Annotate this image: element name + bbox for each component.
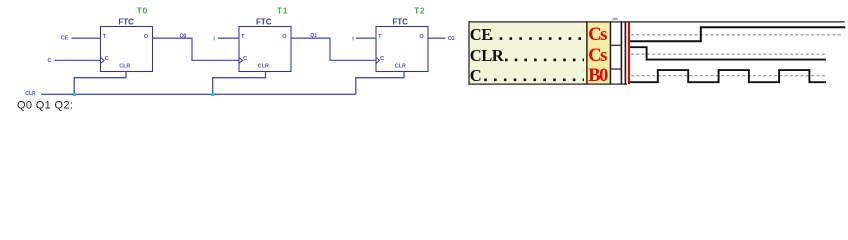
wire CLR branch to U1 — [74, 72, 126, 95]
red time cursor line — [628, 23, 630, 85]
wire I to U3.T — [356, 37, 376, 39]
wire CLR branch to U2 — [213, 72, 266, 95]
svg-text:Cs: Cs — [588, 25, 607, 45]
svg-text:CLR: CLR — [25, 91, 36, 97]
reference dashed line C — [631, 75, 825, 77]
T1 clock wedge — [239, 58, 243, 64]
flip-flop T2 (FTC toggle flip-flop) — [376, 6, 428, 72]
wire CLR bus — [41, 93, 356, 95]
T0 clock wedge — [101, 58, 105, 64]
timing panel value column background — [587, 22, 610, 84]
waveform C clock — [630, 70, 826, 82]
svg-text:T: T — [241, 34, 245, 40]
svg-text:C: C — [48, 58, 52, 64]
svg-text:Cs: Cs — [588, 46, 607, 66]
timing panel left border — [468, 21, 469, 84]
waveform CE — [630, 27, 845, 41]
svg-text:C: C — [380, 56, 384, 62]
wire I to U2.T — [218, 37, 239, 39]
svg-text:O2: O2 — [448, 36, 455, 42]
svg-text:CE: CE — [61, 36, 69, 42]
svg-text:T2: T2 — [414, 6, 425, 16]
T2 clock wedge — [376, 58, 380, 64]
svg-text:C: C — [105, 56, 109, 62]
flip-flop T0 (FTC toggle flip-flop) — [101, 6, 153, 72]
splitter row separator CLR/C — [611, 68, 620, 69]
junction dot CLR/U2 — [211, 93, 214, 96]
svg-text:CLR: CLR — [119, 63, 130, 69]
svg-text:FTC: FTC — [118, 17, 134, 26]
dot leader C — [484, 79, 584, 82]
wire CE to U1.T — [72, 37, 101, 39]
gray tick above panel — [612, 18, 617, 20]
wire U1.O to Q0 corner — [153, 38, 240, 60]
svg-text:CLR: CLR — [395, 63, 406, 69]
svg-text:C: C — [243, 56, 247, 62]
wire C to U1.C — [55, 59, 101, 61]
T1 body — [239, 27, 291, 72]
svg-text:CE: CE — [470, 25, 492, 44]
timing panel name/value separator — [586, 21, 587, 84]
svg-text:T: T — [103, 34, 107, 40]
T2 body — [376, 27, 428, 72]
svg-text:CLR: CLR — [470, 46, 505, 65]
dot leader CLR — [505, 59, 584, 62]
svg-text:O: O — [282, 34, 287, 40]
timing panel right border of yellow area — [610, 21, 612, 84]
svg-text:CLR: CLR — [258, 63, 269, 69]
T0 body — [101, 27, 153, 72]
splitter row separator CE/CLR — [611, 45, 620, 46]
splitter vertical line 1 — [621, 21, 623, 84]
splitter vertical line 2 — [625, 21, 627, 84]
svg-text:O: O — [419, 34, 424, 40]
svg-text:FTC: FTC — [256, 17, 272, 26]
svg-text:B0: B0 — [588, 66, 608, 86]
dot leader CE — [490, 37, 581, 40]
svg-text:Q0 Q1 Q2:: Q0 Q1 Q2: — [17, 100, 73, 112]
reference dashed line CE — [631, 34, 843, 36]
svg-text:T0: T0 — [137, 6, 148, 16]
svg-text:T1: T1 — [277, 6, 288, 16]
junction dot CLR/U1 — [73, 93, 76, 96]
svg-text:C: C — [470, 66, 481, 85]
timing panel top border — [468, 21, 844, 22]
timing panel name column background — [469, 22, 587, 84]
wire CLR branch to U3 — [356, 72, 404, 95]
wire U3.O to node O2 — [428, 37, 446, 39]
wire U2.O to U3.C — [291, 38, 376, 60]
timing panel bottom border — [468, 84, 627, 85]
svg-text:T: T — [378, 34, 382, 40]
svg-text:O: O — [144, 34, 149, 40]
flip-flop T1 (FTC toggle flip-flop) — [239, 6, 291, 72]
reference dashed line CLR — [631, 53, 827, 55]
waveform CLR — [630, 47, 826, 59]
svg-text:FTC: FTC — [392, 17, 408, 26]
